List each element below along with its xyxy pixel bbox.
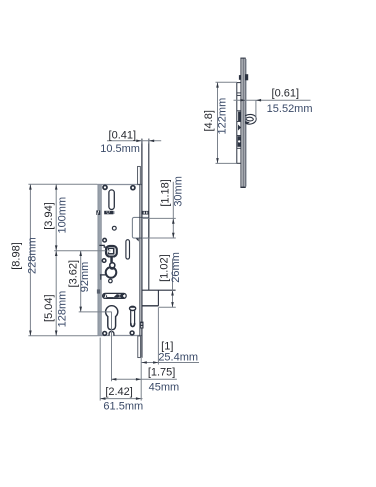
side view strip plates [240, 58, 245, 187]
svg-text:25.4mm: 25.4mm [158, 352, 198, 364]
top oblong slot [109, 190, 114, 210]
svg-text:15.52mm: 15.52mm [267, 103, 313, 115]
dim 61.5mm ext line [100, 338, 142, 401]
cam bracket [100, 275, 106, 280]
screw hole top-right [131, 186, 135, 190]
dim 128mm arrows [55, 251, 58, 256]
svg-text:92mm: 92mm [79, 262, 91, 293]
slider marks [113, 294, 119, 298]
screw hole top-left [103, 185, 107, 189]
small pivot circle [112, 226, 116, 230]
svg-text:[5.04]: [5.04] [43, 294, 55, 322]
dim 122mm ext lines [216, 82, 238, 163]
svg-text:228mm: 228mm [27, 237, 39, 274]
faceplate right edge [148, 139, 150, 291]
side view strip shading [245, 59, 247, 187]
svg-text:[1.75]: [1.75] [148, 366, 176, 378]
inner hatched bar [104, 211, 114, 215]
dim 25.4mm arrows [142, 361, 147, 364]
svg-text:30mm: 30mm [172, 176, 184, 207]
svg-text:45mm: 45mm [149, 381, 180, 393]
dim 15.52mm lines [234, 100, 311, 120]
dim 128mm line [55, 251, 57, 336]
svg-text:10.5mm: 10.5mm [100, 143, 140, 155]
left edge tab lower [97, 289, 100, 293]
svg-text:100mm: 100mm [57, 197, 69, 234]
deadbolt block top edge [142, 289, 176, 291]
handle follower ring [106, 246, 117, 257]
svg-text:[1.18]: [1.18] [159, 179, 171, 207]
dim 92mm line [79, 251, 112, 312]
latch block [132, 217, 149, 238]
spindle square hole [108, 248, 113, 254]
dim 10.5mm ext lines [107, 139, 161, 144]
side column dark fills [238, 112, 241, 121]
side left stud [239, 75, 241, 80]
cam disc [106, 267, 117, 278]
side right stud [245, 74, 248, 80]
left edge tab hatched [96, 210, 100, 215]
euro cylinder profile [106, 306, 118, 330]
svg-text:61.5mm: 61.5mm [103, 401, 143, 413]
dim 15.52mm arrows [256, 99, 261, 102]
faceplate top guide piece [138, 166, 141, 184]
dim 10.5mm arrows [136, 140, 141, 143]
dim 100mm arrows [55, 184, 58, 189]
follower lever [99, 245, 107, 247]
screw hole mid-upper [103, 238, 107, 242]
hook bolt inner [246, 117, 253, 121]
lock case bottom edge [98, 335, 142, 337]
svg-text:128mm: 128mm [57, 291, 69, 328]
svg-text:[3.62]: [3.62] [68, 260, 80, 288]
svg-text:122mm: 122mm [217, 98, 229, 135]
slider left blob [103, 294, 107, 298]
svg-text:[3.94]: [3.94] [43, 202, 55, 230]
adjuster rivet foot [131, 323, 135, 327]
small roller circle [110, 263, 115, 268]
faceplate left edge [141, 139, 143, 358]
dim 26mm ext lines [159, 259, 176, 308]
side column dividers [237, 93, 241, 148]
spindle notch [107, 250, 111, 252]
dim 26mm arrows [171, 290, 174, 295]
svg-text:[4.8]: [4.8] [203, 110, 215, 131]
link bar [110, 256, 113, 263]
svg-text:[0.61]: [0.61] [272, 88, 300, 100]
svg-text:[8.98]: [8.98] [11, 242, 23, 270]
lock case right edge [139, 184, 141, 335]
cylinder fixing screw arch [109, 332, 114, 336]
dim 92mm arrows [79, 251, 82, 256]
faceplate bottom guide piece [138, 336, 141, 358]
svg-text:[1]: [1] [161, 340, 173, 352]
lock case top edge [98, 184, 142, 186]
svg-text:[1.02]: [1.02] [159, 254, 171, 282]
adjuster rivet head [130, 306, 136, 310]
screw hole bottom-left [103, 332, 107, 336]
fp oblong slot [126, 240, 130, 259]
svg-text:[0.41]: [0.41] [109, 129, 137, 141]
latch guide mark [136, 238, 139, 241]
deadbolt block bottom edge [142, 305, 159, 307]
slider bottom line [107, 297, 114, 299]
hook bolt outer [246, 114, 257, 124]
faceplate bottom hatched bolt [140, 322, 143, 329]
side view gear column [237, 83, 241, 164]
roller junction [110, 265, 115, 269]
dim 45mm arrows [111, 378, 116, 381]
screw hole mid-lower [102, 259, 106, 263]
screw hole bottom-right [130, 331, 134, 335]
slider bar [103, 293, 127, 298]
dim 30mm ext lines [142, 182, 176, 238]
lock case left edge band [98, 184, 101, 335]
svg-text:26mm: 26mm [170, 252, 182, 283]
dim 100mm line [54, 184, 105, 250]
dim 25.4mm ext line [142, 308, 200, 365]
dim 122mm arrows [216, 82, 219, 87]
dim 228mm ext lines [28, 184, 97, 335]
dim 30mm arrows [172, 219, 175, 224]
slider right blob [121, 294, 125, 298]
dim 61.5mm arrows [100, 397, 105, 400]
dim 45mm ext lines [111, 312, 177, 401]
cam pin circle [109, 279, 113, 283]
dim 228mm arrows [29, 184, 32, 189]
adjuster rivet shank [131, 308, 135, 327]
deadbolt block right edge [157, 290, 159, 306]
faceplate hatched roller bolt [141, 211, 148, 215]
svg-text:[2.42]: [2.42] [105, 386, 133, 398]
